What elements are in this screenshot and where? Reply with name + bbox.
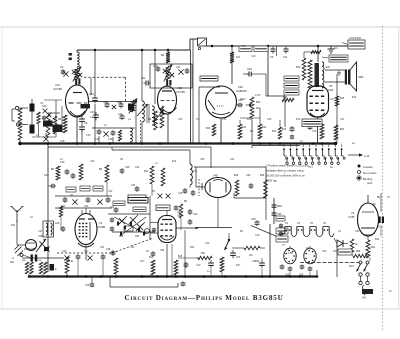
svg-text:B14: B14 [296, 118, 301, 121]
svg-text:C47: C47 [236, 257, 241, 259]
svg-text:Circuit Diagram—Philips Model: Circuit Diagram—Philips Model B3G85U [124, 294, 283, 302]
svg-text:B9: B9 [377, 196, 381, 199]
svg-text:C58: C58 [288, 252, 293, 255]
svg-text:B12: B12 [172, 160, 177, 163]
svg-text:Sw1: Sw1 [349, 265, 354, 268]
svg-text:C45: C45 [267, 118, 272, 121]
svg-text:C60: C60 [119, 236, 124, 238]
svg-text:S6: S6 [70, 194, 74, 197]
svg-text:L8: L8 [30, 216, 33, 219]
svg-text:5: 5 [309, 143, 310, 145]
svg-text:S1B: S1B [60, 140, 65, 143]
svg-text:B14: B14 [149, 256, 154, 259]
svg-text:A.14: A.14 [364, 154, 370, 158]
svg-text:C19: C19 [251, 55, 256, 58]
svg-text:B17: B17 [236, 264, 241, 267]
svg-text:C38: C38 [125, 166, 130, 169]
svg-text:8: 8 [328, 143, 329, 145]
svg-text:S6A: S6A [42, 105, 47, 108]
svg-text:3: 3 [296, 143, 297, 145]
svg-text:5%: 5% [207, 271, 210, 273]
svg-text:S8: S8 [120, 158, 124, 161]
svg-text:B19: B19 [352, 96, 357, 99]
svg-text:C48: C48 [251, 218, 256, 221]
svg-text:C34: C34 [135, 166, 140, 169]
svg-text:7: 7 [321, 143, 322, 145]
svg-text:C64: C64 [135, 236, 140, 238]
svg-text:170V: 170V [255, 94, 261, 97]
svg-text:2·P43.920: 2·P43.920 [349, 36, 362, 40]
svg-text:C61: C61 [100, 246, 105, 249]
svg-text:UABC80: UABC80 [236, 89, 247, 93]
svg-text:1: 1 [341, 143, 342, 145]
svg-text:1M: 1M [249, 254, 252, 257]
svg-text:C41: C41 [340, 118, 345, 121]
svg-text:C20: C20 [44, 174, 49, 177]
svg-text:UCC85: UCC85 [176, 90, 185, 94]
svg-text:B8: B8 [99, 168, 103, 171]
svg-text:C28: C28 [178, 192, 183, 195]
svg-text:B26: B26 [234, 174, 239, 177]
svg-text:C39: C39 [106, 249, 111, 251]
svg-text:S10: S10 [230, 158, 235, 161]
svg-text:C18: C18 [108, 138, 113, 141]
svg-text:B15: B15 [178, 255, 183, 258]
svg-text:49: 49 [389, 291, 392, 293]
svg-text:V1A: V1A [55, 83, 60, 87]
svg-text:12V: 12V [330, 98, 335, 101]
svg-text:C44: C44 [222, 118, 227, 121]
svg-text:B20: B20 [22, 260, 27, 262]
svg-text:B6: B6 [148, 117, 152, 121]
svg-text:MR1: MR1 [277, 205, 283, 208]
svg-text:S4B: S4B [117, 101, 122, 104]
svg-text:C26: C26 [90, 160, 95, 163]
svg-text:C12: C12 [141, 77, 146, 80]
svg-text:V6: V6 [323, 222, 327, 225]
svg-text:B11: B11 [242, 126, 247, 129]
svg-text:C12: C12 [89, 92, 94, 96]
svg-text:C43: C43 [193, 213, 198, 216]
svg-text:UL84: UL84 [327, 88, 334, 92]
svg-text:C62: C62 [110, 207, 115, 209]
svg-text:680: 680 [201, 253, 206, 255]
svg-text:49: 49 [387, 196, 390, 199]
svg-text:B19: B19 [24, 248, 29, 251]
svg-text:AM: AM [10, 261, 14, 264]
svg-text:C28: C28 [37, 260, 42, 262]
svg-text:B10: B10 [144, 170, 149, 173]
svg-text:240V tap.: 240V tap. [266, 179, 278, 183]
svg-text:4: 4 [302, 143, 303, 145]
svg-text:S5B: S5B [103, 101, 108, 104]
svg-text:UCC85: UCC85 [53, 87, 62, 91]
svg-text:V4B: V4B [213, 175, 218, 178]
svg-text:A: A [12, 257, 14, 260]
svg-text:C9: C9 [90, 116, 94, 119]
svg-text:L12: L12 [193, 171, 198, 173]
svg-text:C22: C22 [108, 190, 113, 193]
svg-text:5%: 5% [155, 163, 158, 165]
svg-text:C36: C36 [160, 250, 165, 252]
svg-text:C23: C23 [84, 205, 89, 208]
svg-text:C17: C17 [176, 66, 181, 69]
svg-text:B18: B18 [340, 98, 345, 100]
svg-text:1: 1 [283, 143, 284, 145]
svg-text:B30: B30 [260, 174, 265, 177]
svg-text:S6A: S6A [68, 102, 73, 105]
svg-text:C33: C33 [178, 118, 183, 121]
svg-text:B5: B5 [152, 190, 156, 193]
svg-text:C6: C6 [60, 65, 64, 69]
svg-text:9a: 9a [330, 166, 333, 169]
svg-text:C9: C9 [270, 56, 274, 59]
svg-text:R60: R60 [356, 251, 361, 253]
svg-text:B4: B4 [240, 230, 244, 233]
svg-text:2: 2 [289, 143, 290, 145]
svg-text:post: post [367, 181, 373, 185]
svg-text:B4: B4 [161, 53, 165, 57]
svg-text:V2: V2 [285, 222, 289, 225]
svg-text:S9: S9 [146, 250, 150, 253]
svg-text:46: 46 [373, 204, 376, 206]
svg-text:C27: C27 [38, 230, 43, 233]
svg-text:C19: C19 [60, 161, 65, 164]
svg-text:B11: B11 [247, 118, 252, 121]
svg-text:FM: FM [11, 223, 15, 227]
svg-text:UCH81: UCH81 [97, 225, 106, 229]
svg-text:C15: C15 [153, 65, 158, 68]
svg-text:UY85: UY85 [348, 215, 355, 219]
svg-text:X2: X2 [338, 230, 342, 233]
svg-text:C39: C39 [312, 130, 317, 133]
svg-text:B21: B21 [256, 101, 261, 104]
svg-text:C68: C68 [85, 285, 90, 287]
svg-text:B3: B3 [58, 117, 62, 121]
svg-text:S4B: S4B [241, 45, 246, 48]
svg-text:250V: 250V [240, 98, 246, 101]
svg-text:2 Position switch shown in 51: 2 Position switch shown in 510 pos. [266, 164, 309, 168]
svg-text:C30: C30 [86, 134, 91, 137]
svg-text:B9: B9 [184, 200, 188, 203]
svg-text:C49: C49 [255, 234, 260, 237]
svg-text:B20: B20 [340, 129, 345, 131]
svg-text:8%: 8% [250, 130, 254, 133]
svg-text:C10: C10 [90, 111, 95, 114]
svg-text:2M: 2M [256, 107, 259, 110]
svg-text:B20: B20 [272, 130, 277, 133]
svg-text:C31: C31 [69, 260, 74, 263]
svg-text:6: 6 [315, 143, 316, 145]
svg-text:C40: C40 [196, 264, 201, 267]
svg-text:C57: C57 [333, 251, 338, 253]
svg-text:B12: B12 [262, 126, 267, 129]
svg-text:C35: C35 [200, 158, 205, 161]
svg-text:9: 9 [334, 143, 335, 145]
svg-text:C46: C46 [246, 174, 251, 177]
svg-text:V5: V5 [310, 222, 314, 225]
svg-text:V3: V3 [297, 222, 301, 225]
svg-text:B19: B19 [206, 128, 211, 130]
svg-text:B6: B6 [51, 168, 55, 171]
svg-text:4a: 4a [352, 142, 355, 145]
svg-text:1k: 1k [355, 243, 358, 246]
svg-text:C32: C32 [131, 185, 136, 187]
svg-text:C42: C42 [205, 242, 210, 245]
svg-text:V6: V6 [351, 211, 355, 215]
svg-text:C11: C11 [283, 56, 288, 59]
svg-text:V4A: V4A [238, 85, 243, 89]
svg-text:L1: L1 [36, 134, 39, 137]
svg-text:V1B: V1B [38, 235, 43, 238]
svg-text:C8: C8 [84, 121, 88, 125]
svg-text:24C: 24C [362, 297, 367, 300]
svg-text:C50: C50 [277, 213, 282, 216]
svg-text:B22: B22 [375, 238, 380, 241]
svg-text:B16: B16 [296, 66, 301, 69]
svg-text:B16: B16 [190, 246, 195, 249]
svg-text:B21: B21 [371, 246, 376, 249]
svg-text:V5: V5 [329, 84, 333, 88]
svg-text:V2: V2 [99, 221, 103, 225]
svg-text:C63: C63 [130, 246, 135, 249]
svg-text:B24: B24 [283, 97, 288, 99]
svg-text:C1: C1 [334, 46, 338, 50]
svg-text:Contact: Contact [363, 165, 373, 169]
svg-text:C13: C13 [118, 113, 123, 116]
svg-text:E: E [55, 268, 57, 271]
svg-text:C24: C24 [55, 222, 60, 225]
svg-text:C53: C53 [322, 250, 327, 253]
svg-text:No contact: No contact [363, 171, 377, 175]
svg-text:V1B: V1B [177, 86, 182, 90]
svg-text:S1C: S1C [84, 250, 89, 253]
svg-text:S20: S20 [326, 66, 331, 69]
svg-text:1M: 1M [236, 55, 240, 59]
svg-text:C49: C49 [247, 67, 252, 71]
svg-text:C29: C29 [62, 250, 67, 253]
svg-text:L4: L4 [128, 118, 131, 121]
svg-text:S2M: S2M [358, 75, 363, 79]
svg-text:C51: C51 [252, 260, 257, 263]
svg-text:9a.2: 9a.2 [308, 166, 313, 169]
svg-text:V7: V7 [282, 244, 286, 247]
svg-text:20,000 Ω/V voltmeter 240V in: 20,000 Ω/V voltmeter 240V in on [266, 174, 305, 178]
svg-text:B13: B13 [282, 128, 287, 131]
svg-text:C58: C58 [378, 227, 383, 229]
svg-text:C37: C37 [140, 260, 145, 263]
svg-text:C56: C56 [355, 230, 360, 233]
svg-text:L3: L3 [104, 124, 107, 127]
